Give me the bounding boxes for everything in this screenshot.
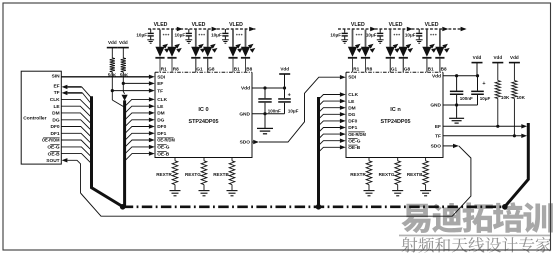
svg-text:DF1: DF1 (157, 131, 166, 137)
svg-text:SIN: SIN (52, 74, 61, 80)
svg-text:G8: G8 (208, 66, 215, 71)
watermark underline (399, 235, 551, 237)
svg-text:CLK: CLK (348, 92, 358, 98)
svg-text:Vdd: Vdd (493, 55, 502, 60)
LED string G8 (ICn) (402, 30, 404, 47)
svg-text:Vdd: Vdd (473, 55, 482, 60)
svg-text:STP24DP05: STP24DP05 (189, 119, 219, 125)
svg-text:DF1: DF1 (51, 131, 60, 137)
VLED rail left arrows (177, 27, 183, 31)
svg-text:OE-B: OE-B (48, 151, 61, 157)
LED string G1 (ICn) (389, 30, 391, 47)
svg-text:SDI: SDI (348, 75, 357, 81)
svg-text:OE-R/DM: OE-R/DM (348, 132, 366, 137)
svg-text:10K: 10K (517, 95, 526, 100)
bus bar ICn side (317, 97, 320, 207)
svg-text:Vdd: Vdd (432, 73, 441, 79)
junction bus middle (316, 204, 322, 210)
svg-text:100nF: 100nF (268, 108, 281, 113)
svg-text:10μF: 10μF (211, 33, 222, 38)
capacitor 100nF ICn (456, 76, 458, 91)
VLED rail right arrows (370, 27, 376, 31)
svg-text:SDO: SDO (431, 144, 442, 150)
op ICn box (346, 72, 443, 157)
svg-text:DG: DG (348, 112, 355, 118)
resistor REXTR (IC0) (174, 158, 176, 161)
wire ICn Vdd (443, 75, 478, 77)
wire IC0 Vdd (252, 87, 285, 89)
svg-text:Vdd: Vdd (510, 55, 519, 60)
svg-text:TF: TF (157, 88, 163, 94)
resistor 50K right (122, 48, 124, 58)
svg-text:R8: R8 (366, 66, 372, 71)
svg-text:10μF: 10μF (405, 33, 416, 38)
svg-text:OE-B: OE-B (348, 145, 361, 151)
watermark text line 2 (402, 237, 552, 253)
ground IC0 caps (264, 114, 266, 128)
ellipsis dots LED groups (163, 34, 165, 36)
svg-text:REXTR: REXTR (156, 172, 172, 177)
svg-text:LE: LE (348, 99, 355, 105)
op IC0 box (155, 72, 252, 157)
svg-text:B1: B1 (234, 66, 240, 71)
wire IC0 GND (252, 113, 285, 115)
controller U-CTRL box (21, 71, 61, 164)
svg-text:DF0: DF0 (157, 124, 166, 130)
LED string R8 (IC0) (171, 30, 173, 47)
wire ICn EF to bus (443, 125, 521, 127)
svg-text:STP24DP05: STP24DP05 (381, 119, 411, 125)
svg-text:EF: EF (157, 81, 163, 87)
LED string B8 (IC0) (245, 30, 247, 47)
bus chain line (123, 206, 505, 209)
resistor 50K left (111, 48, 113, 58)
VLED rail right (338, 28, 467, 30)
svg-text:REXTG: REXTG (185, 172, 201, 177)
capacitor 10uF VLED G left (188, 29, 190, 33)
svg-text:OE-R/DM: OE-R/DM (42, 138, 60, 143)
wire ICn SDO return (443, 145, 453, 147)
LED string R1 (ICn) (352, 30, 354, 47)
svg-text:CLK: CLK (50, 97, 60, 103)
svg-text:VLED: VLED (229, 22, 243, 28)
wire SIN to SDI (61, 76, 149, 78)
wire EF into controller (62, 85, 68, 89)
LED string G8 (IC0) (207, 30, 209, 47)
svg-text:CLK: CLK (157, 97, 167, 103)
resistor REXTB (ICn) (425, 158, 427, 161)
svg-text:LE: LE (53, 104, 60, 110)
svg-text:Vdd: Vdd (108, 40, 117, 45)
svg-text:10μF: 10μF (330, 33, 341, 38)
svg-text:R1: R1 (161, 66, 167, 71)
bus bar right (505, 123, 528, 207)
svg-text:EF: EF (435, 124, 441, 130)
ground ICn caps (456, 105, 458, 118)
svg-text:VLED: VLED (154, 22, 168, 28)
svg-text:VLED: VLED (192, 22, 206, 28)
svg-text:GND: GND (239, 111, 250, 117)
svg-text:50K: 50K (120, 72, 129, 77)
LED string B1 (ICn) (426, 30, 428, 47)
node IC0 Vdd caps (263, 86, 266, 89)
resistor REXTG (ICn) (397, 158, 399, 161)
wire EF line to IC0 (123, 82, 149, 84)
wires controller CLK..OE-B to bus (61, 99, 91, 110)
capacitor 10uF VLED G right (379, 29, 381, 33)
svg-text:REXTB: REXTB (407, 172, 423, 177)
capacitor 10uF VLED R left (150, 29, 152, 33)
svg-text:10μF: 10μF (288, 108, 299, 113)
VLED rail left (148, 28, 255, 30)
resistor REXTR (ICn) (368, 158, 370, 161)
svg-text:REXTR: REXTR (350, 172, 366, 177)
wire ICn GND (443, 104, 478, 106)
svg-text:R8: R8 (173, 66, 179, 71)
svg-text:SDI: SDI (157, 75, 166, 81)
svg-text:REXTB: REXTB (213, 172, 229, 177)
svg-text:GND: GND (430, 103, 441, 109)
svg-text:G8: G8 (404, 66, 411, 71)
junction bus right (502, 204, 508, 210)
junction bus left (120, 204, 126, 210)
svg-text:TF: TF (435, 134, 441, 140)
svg-text:DM: DM (348, 105, 355, 111)
LED string R8 (ICn) (365, 30, 367, 47)
svg-text:50K: 50K (108, 72, 117, 77)
IC0 top pin stubs and labels (159, 59, 161, 72)
svg-text:VLED: VLED (389, 22, 403, 28)
svg-text:DF1: DF1 (348, 125, 357, 131)
svg-text:OE-B: OE-B (157, 151, 170, 157)
capacitor 10uF VLED B right (418, 29, 420, 33)
node IC0 GND (263, 112, 266, 115)
node ICn GND (455, 103, 458, 106)
svg-text:EF: EF (53, 84, 59, 90)
svg-text:R1: R1 (353, 66, 359, 71)
wires bus to ICn pins (319, 95, 342, 100)
svg-text:G1: G1 (391, 66, 398, 71)
ICn top pin stubs and labels (352, 59, 354, 72)
node ICn Vdd caps (455, 74, 458, 77)
svg-text:Vdd: Vdd (241, 86, 250, 92)
svg-text:VLED: VLED (425, 22, 439, 28)
svg-text:LE: LE (157, 104, 164, 110)
svg-text:SDO: SDO (240, 140, 251, 146)
svg-text:SOUT: SOUT (46, 158, 59, 164)
svg-text:OE-R/DM: OE-R/DM (157, 138, 175, 143)
wires bus to IC0 pins (125, 99, 150, 106)
wire SOUT into controller (62, 158, 68, 162)
svg-text:G1: G1 (196, 66, 203, 71)
wire IC0 SDO to ICn SDI (252, 141, 253, 143)
svg-text:TF: TF (54, 90, 60, 96)
svg-text:+: + (288, 93, 291, 99)
svg-text:OE-G: OE-G (348, 138, 361, 144)
svg-text:VLED: VLED (351, 22, 365, 28)
bus bar IC0 side (123, 100, 126, 206)
svg-text:Vdd: Vdd (119, 40, 128, 45)
wire ICn TF to bus (443, 135, 521, 137)
svg-text:DM: DM (52, 111, 59, 117)
LED string R1 (IC0) (159, 30, 161, 47)
svg-text:B1: B1 (428, 66, 434, 71)
svg-text:DG: DG (157, 118, 164, 124)
LED string G1 (IC0) (195, 30, 197, 47)
svg-text:+: + (482, 81, 485, 87)
resistor REXTB (IC0) (231, 158, 233, 161)
svg-text:10μF: 10μF (480, 96, 491, 101)
svg-text:OE-G: OE-G (47, 145, 60, 151)
svg-text:DF0: DF0 (51, 124, 60, 130)
resistor REXTG (IC0) (203, 158, 205, 161)
svg-text:10μF: 10μF (136, 33, 147, 38)
svg-text:OE-G: OE-G (157, 145, 170, 151)
watermark text line 1 (401, 202, 552, 233)
capacitor 10uF IC0 (284, 88, 286, 98)
svg-text:IC 0: IC 0 (198, 107, 208, 113)
node TF pullup (111, 89, 114, 92)
node EF pullup (122, 82, 125, 85)
svg-text:10μF: 10μF (366, 33, 377, 38)
svg-text:IC n: IC n (390, 107, 401, 113)
svg-text:100nF: 100nF (460, 96, 473, 101)
bus bar controller side (92, 96, 123, 206)
svg-text:REXTG: REXTG (379, 172, 395, 177)
svg-text:DG: DG (52, 118, 59, 124)
svg-text:B8: B8 (246, 66, 252, 71)
capacitor 10uF VLED B left (224, 29, 226, 33)
svg-text:Vdd: Vdd (280, 67, 289, 72)
capacitor 100nF IC0 (264, 88, 266, 98)
svg-text:B8: B8 (441, 66, 447, 71)
capacitor 10uF ICn (477, 76, 479, 91)
wire TF line to IC0 (112, 90, 149, 92)
svg-text:10μF: 10μF (174, 33, 185, 38)
svg-text:10K: 10K (501, 95, 510, 100)
capacitor 10uF VLED R right (344, 29, 346, 33)
LED string B8 (ICn) (439, 30, 441, 47)
svg-text:DF0: DF0 (348, 119, 357, 125)
svg-text:DM: DM (157, 111, 164, 117)
svg-text:Controller: Controller (23, 116, 46, 122)
wire TF into controller (62, 91, 68, 95)
LED string B1 (IC0) (232, 30, 234, 47)
